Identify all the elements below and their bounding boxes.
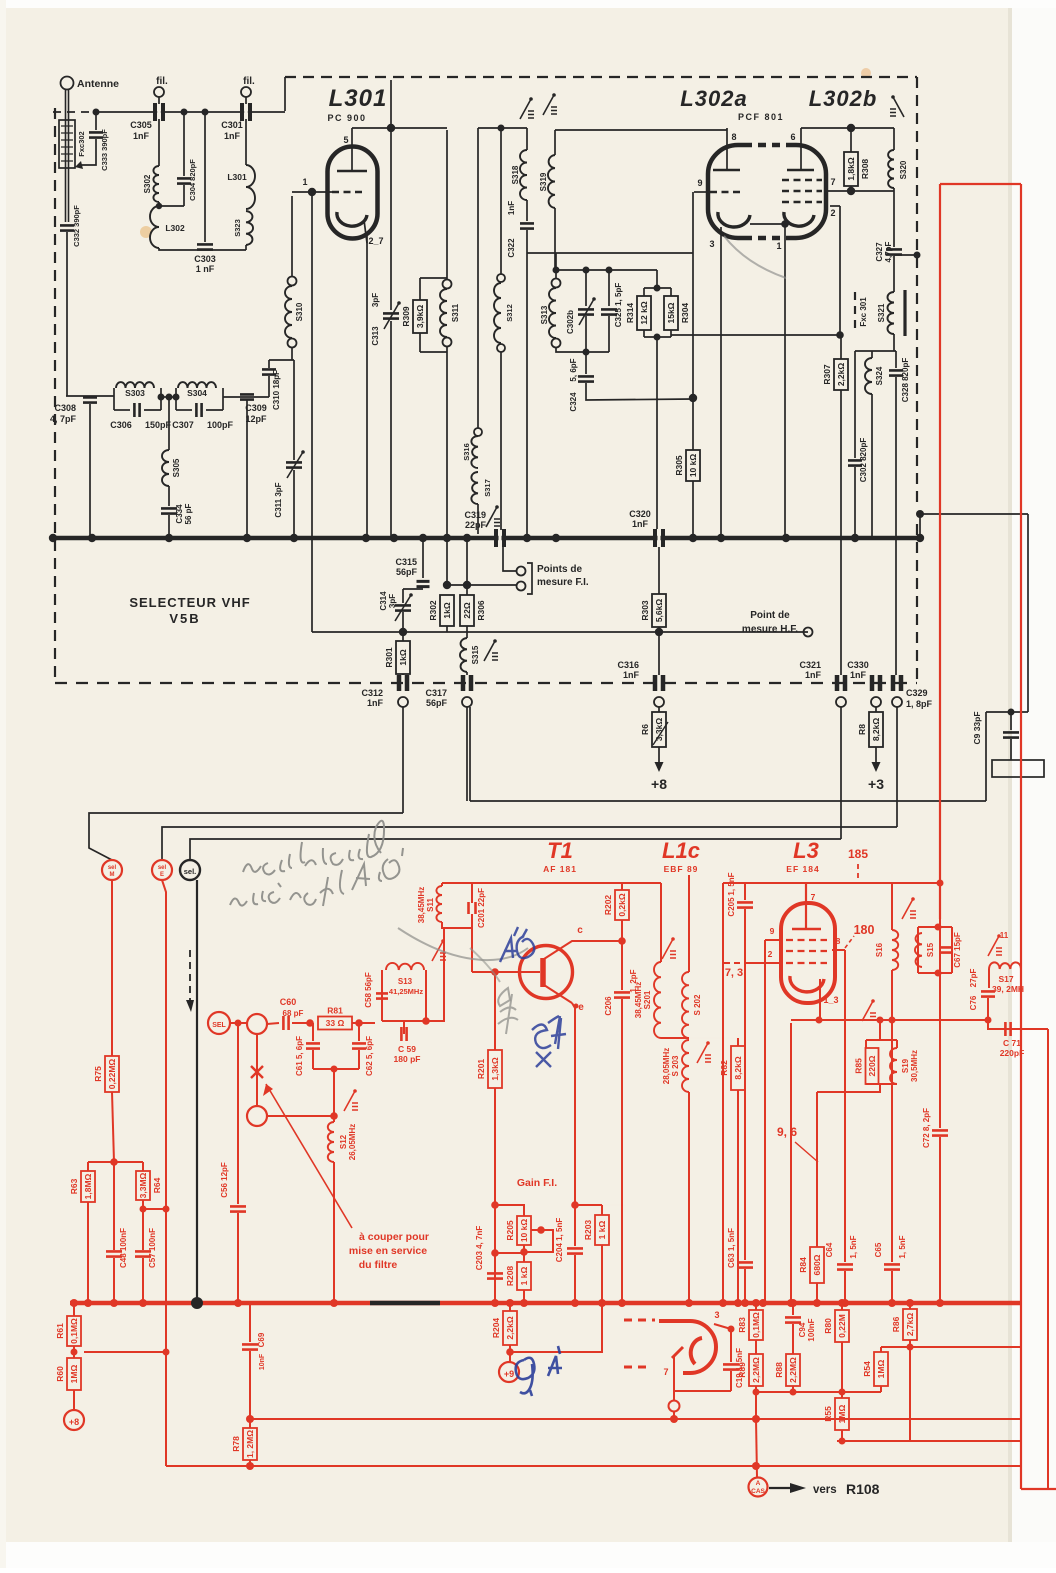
capacitor C334 56pF [168,486,170,506]
svg-text:C206: C206 [604,996,613,1016]
svg-text:S313: S313 [540,305,549,324]
svg-text:56pF: 56pF [396,567,418,577]
svg-text:1nF: 1nF [367,698,384,708]
svg-text:C204 1, 5nF: C204 1, 5nF [555,1218,564,1263]
capacitor C62 5.6pF [358,1023,360,1041]
svg-text:L302: L302 [165,223,185,233]
capacitor C320 1nF inline [655,529,663,547]
terminal +8 red [64,1410,84,1430]
svg-text:100nF: 100nF [807,1318,816,1341]
wire row 1441 [837,1440,1021,1442]
svg-text:1 kΩ: 1 kΩ [597,1221,607,1240]
grid circle [669,1401,680,1412]
point de mesure HF [804,628,813,637]
svg-text:R54: R54 [862,1361,872,1377]
inductor S305 [168,397,170,450]
resistor R64 3.3M [136,1171,150,1200]
svg-text:1_3: 1_3 [823,995,838,1005]
terminal CAS [749,1478,768,1497]
inductor S203 28.05MHz [682,1040,689,1092]
svg-text:L1c: L1c [662,838,700,863]
svg-text:3pF: 3pF [371,293,380,307]
resistor R8 8.2k to +3 [872,675,880,691]
svg-text:C 59: C 59 [398,1044,416,1054]
svg-text:S15: S15 [926,942,935,957]
svg-text:1, 8pF: 1, 8pF [906,699,933,709]
svg-text:C57 100nF: C57 100nF [148,1228,157,1268]
svg-text:C310 18pF: C310 18pF [272,370,281,410]
capacitor C322 1nF [520,223,534,228]
svg-text:7, 3: 7, 3 [725,967,743,979]
capacitor C206 1.2pF [621,941,623,990]
tube L3 pin2 dashes [724,962,744,964]
svg-text:du filtre: du filtre [359,1259,398,1271]
svg-text:R302: R302 [428,600,438,621]
svg-text:V5B: V5B [169,611,200,626]
svg-text:R202: R202 [603,895,613,916]
svg-text:C201 22pF: C201 22pF [477,888,486,928]
resistor R63 1.8M [81,1171,95,1202]
capacitor C319 22pF inline [496,529,504,547]
inductor S324 [871,351,873,358]
svg-text:R75: R75 [93,1066,103,1082]
svg-text:5, 6pF: 5, 6pF [569,358,578,381]
svg-text:C321: C321 [799,660,821,670]
svg-text:0,22M: 0,22M [837,1314,847,1338]
svg-text:mise en service: mise en service [349,1245,427,1257]
inductor S321 with core [887,292,894,334]
svg-text:vers: vers [813,1484,837,1496]
wire C203 node to wiper node [495,1252,524,1254]
bus junction dots [49,534,57,542]
resistor box right edge [992,760,1044,777]
svg-text:41,25MHz: 41,25MHz [389,987,423,996]
switch contact circle 2 [247,1106,267,1126]
svg-text:C327: C327 [875,242,884,262]
svg-text:S17: S17 [998,974,1013,984]
wire S310 to C310/C311 [269,359,294,361]
svg-text:S323: S323 [233,219,242,237]
svg-text:39, 2MH: 39, 2MH [992,984,1024,994]
svg-text:C317: C317 [425,688,447,698]
red frame vertical 1021 [1020,184,1022,1489]
tube L3 EF184 [781,903,835,1003]
svg-text:R80: R80 [823,1318,833,1334]
wire antenna row [66,395,114,397]
svg-text:R301: R301 [384,647,394,668]
terminal +9 [509,1352,511,1362]
wire tank to S11 bottom [422,1017,430,1025]
svg-text:R78: R78 [231,1436,241,1452]
svg-text:C63 1, 5nF: C63 1, 5nF [727,1228,736,1268]
svg-text:c: c [577,925,583,936]
svg-text:S 202: S 202 [693,994,702,1015]
svg-text:R63: R63 [69,1178,79,1194]
svg-text:C56 12pF: C56 12pF [220,1162,229,1198]
wire cathode link [750,223,783,225]
svg-text:27pF: 27pF [969,969,978,988]
svg-text:26,05MHz: 26,05MHz [348,1124,357,1160]
svg-text:7: 7 [663,1367,668,1377]
svg-text:C325 1, 5pF: C325 1, 5pF [614,283,623,328]
svg-text:S12: S12 [339,1134,348,1149]
switch SEL [208,1012,230,1034]
red frame vertical 940 [939,184,941,919]
wire long row 632 [312,631,808,633]
svg-text:+3: +3 [868,776,884,792]
capacitor C321 1nF border [837,675,845,691]
svg-text:C307: C307 [172,420,194,430]
wire cathode down [791,1019,988,1021]
svg-text:1kΩ: 1kΩ [398,649,408,665]
wire L302 bottom [159,248,246,250]
svg-text:C9 33pF: C9 33pF [972,711,982,744]
wire row 1347 [881,1346,1021,1348]
resistor R88 2.2M [786,1354,800,1386]
fil. terminal 1 [154,87,164,97]
svg-text:C304 820pF: C304 820pF [188,159,197,201]
capacitor C72 8.2pF [939,1020,941,1128]
svg-text:C58 56pF: C58 56pF [364,972,373,1008]
capacitor C325 1.5pF [608,270,610,306]
resistor R84 680 [816,1092,818,1247]
resistor R307 2.2k [834,359,848,390]
svg-text:C94: C94 [798,1322,807,1337]
capacitor C301 1nF inline [242,103,250,121]
wire pin6 node [801,127,894,129]
svg-text:S324: S324 [875,366,884,385]
svg-text:9: 9 [770,926,775,936]
inductor S17 39.2MHz [989,962,1021,969]
svg-text:S311: S311 [451,303,460,322]
capacitor C305 1nF inline [155,103,163,121]
tube L302 pentode grids [782,179,822,182]
svg-text:M: M [110,872,115,878]
svg-text:1nF: 1nF [623,670,640,680]
tube L301 grid pin 1 [332,191,362,194]
svg-text:SELECTEUR VHF: SELECTEUR VHF [129,595,250,610]
svg-text:C330: C330 [847,660,869,670]
svg-text:3: 3 [709,239,714,249]
capacitor C9 33pF [986,711,1028,713]
filter Fxc302 [59,120,75,168]
svg-text:+9: +9 [504,1369,514,1379]
svg-text:4, 7pF: 4, 7pF [50,414,77,424]
main ground bus [53,536,920,541]
svg-text:8: 8 [731,132,736,142]
resistor R204 2.2k [509,1303,511,1311]
svg-text:8,2kΩ: 8,2kΩ [871,718,881,742]
svg-text:C62 5, 6pF: C62 5, 6pF [365,1036,374,1076]
tube L3 pin8 [832,949,845,951]
svg-text:28,05MHz: 28,05MHz [662,1048,671,1084]
svg-text:CAS: CAS [751,1488,765,1495]
capacitor C64 1.5nF [844,950,846,1262]
transistor T1 emitter [544,985,572,1003]
svg-text:1 nF: 1 nF [196,264,215,274]
wire border corner [284,77,286,111]
resistor R55 1M [835,1398,849,1430]
svg-text:1MΩ: 1MΩ [876,1360,886,1379]
wire C9 riser [985,712,987,801]
svg-text:22Ω: 22Ω [462,602,472,618]
svg-text:1, 2MΩ: 1, 2MΩ [245,1430,255,1458]
resistor R314 12k [656,270,658,288]
svg-text:PCF 801: PCF 801 [738,112,784,122]
svg-text:C311 3pF: C311 3pF [274,482,283,517]
resistor R78 1.2M [243,1428,257,1460]
resistor R60 1M [73,1346,75,1358]
svg-text:R204: R204 [491,1318,501,1339]
svg-text:C303: C303 [194,254,216,264]
wire cathode L301 to bus [366,235,368,538]
resistor R202 0.2k [615,890,629,920]
svg-text:1nF: 1nF [224,131,241,141]
svg-text:1: 1 [302,177,307,187]
svg-text:S310: S310 [295,302,304,321]
wire anode to node [352,127,447,129]
capacitor C204 1.5nF [574,1205,576,1246]
svg-text:AF 181: AF 181 [543,864,577,874]
tube diode pin3 [714,1324,731,1329]
wire R204 node [510,1303,602,1352]
svg-text:S13: S13 [398,977,413,986]
svg-text:S302: S302 [143,174,152,193]
svg-text:2: 2 [830,208,835,218]
wire sel black down [196,880,198,1300]
wire second top node [478,127,527,129]
capacitor C310 18pF [268,360,270,368]
svg-text:1nF: 1nF [805,670,822,680]
svg-text:8,2kΩ: 8,2kΩ [733,1056,743,1080]
svg-text:2,2kΩ: 2,2kΩ [505,1316,515,1340]
svg-text:1 kΩ: 1 kΩ [519,1267,529,1286]
red frame top [940,183,1021,185]
capacitor C59 180pF [403,1021,405,1034]
svg-text:2_7: 2_7 [368,236,383,246]
svg-text:R303: R303 [640,600,650,621]
resistor R301 1k [402,632,404,641]
wire emitter down [572,1003,575,1205]
svg-text:2: 2 [768,949,773,959]
arrow vers R108 [769,1487,790,1489]
svg-text:10 kΩ: 10 kΩ [519,1219,529,1243]
tube EBF89 diode section [624,1319,655,1322]
svg-text:2,2kΩ: 2,2kΩ [836,363,846,387]
svg-text:S319: S319 [539,172,548,191]
inductor S320 [893,128,895,150]
svg-text:S 203: S 203 [671,1055,680,1076]
svg-text:11: 11 [1000,931,1009,940]
tank S15/C67 15pF [918,926,952,928]
node between tanks [161,396,176,398]
svg-text:180: 180 [854,923,875,937]
inductor S319 [554,130,556,155]
svg-text:1MΩ: 1MΩ [837,1405,847,1424]
capacitor C19 1.5nF [730,1329,732,1362]
svg-text:C60: C60 [280,997,297,1007]
wire sel M down [111,880,113,1056]
test point circle C312 [398,697,408,707]
capacitor C304 820pF [181,109,188,116]
svg-text:2,2MΩ: 2,2MΩ [788,1357,798,1383]
svg-text:SEL: SEL [212,1022,226,1029]
svg-text:C320: C320 [629,509,651,519]
svg-text:R203: R203 [583,1220,593,1241]
svg-text:C329: C329 [906,688,928,698]
arrow note to cross [266,1084,352,1228]
node R301 [399,628,407,636]
capacitor C332 390pF [60,225,74,230]
capacitor C316 1nF border [658,632,660,675]
svg-text:e: e [578,1002,584,1013]
terminal sel (black) [180,860,200,880]
svg-text:1, 5nF: 1, 5nF [898,1235,907,1258]
svg-text:1,3kΩ: 1,3kΩ [490,1057,500,1081]
capacitor C314 3pF trimmer [395,605,411,610]
red main bus [70,1301,1021,1306]
resistor R303 5.6k [658,547,660,594]
trimmer 11 mark [988,936,999,956]
capacitor C329 1.8pF border [893,675,901,691]
svg-text:1MΩ: 1MΩ [69,1365,79,1384]
svg-text:PC 900: PC 900 [327,113,366,123]
svg-text:L301: L301 [329,85,388,112]
svg-text:L302b: L302b [809,86,878,111]
wire right verticals [1047,1029,1049,1489]
capacitor C205 1.5nF [744,883,746,900]
svg-text:100pF: 100pF [207,420,234,430]
svg-text:C67 15pF: C67 15pF [953,932,962,968]
transistor T1 AF181 [520,946,573,999]
svg-text:220Ω: 220Ω [867,1055,877,1076]
svg-text:S305: S305 [172,458,181,477]
resistor R309 3.9k [419,278,421,300]
inductor L302 coil [150,206,159,248]
svg-text:Gain F.I.: Gain F.I. [517,1177,557,1189]
tube L302 triode grid [710,191,742,194]
svg-text:7: 7 [830,177,835,187]
svg-text:1kΩ: 1kΩ [442,602,452,618]
capacitor C71 220pF [988,1020,1048,1029]
capacitor C302 820pF [854,351,856,458]
svg-text:30,5MHz: 30,5MHz [910,1050,919,1082]
inductor S310 with test points [291,196,293,276]
svg-text:R60: R60 [55,1366,65,1382]
inductor S16 [891,883,893,930]
inductor S202 [688,875,690,972]
transistor T1 collector [544,941,622,959]
capacitor C309 12pF [223,396,269,398]
svg-text:C69: C69 [257,1332,266,1347]
resistor R203 1k [575,1205,625,1212]
wire 723 riser [722,883,724,1303]
black dot on bus [191,1297,203,1309]
inductor S316/S317 column [477,128,479,428]
capacitor C61 5.6pF [312,1023,314,1041]
trimmer pin6 top [893,97,904,117]
trimmer S315 [484,641,495,661]
svg-text:C301: C301 [221,120,243,130]
capacitor C315 56pF [422,538,424,578]
svg-text:S315: S315 [471,645,480,664]
potentiometer wiper [537,1226,545,1234]
svg-text:3,3MΩ: 3,3MΩ [138,1172,148,1198]
svg-text:3pF: 3pF [388,594,397,608]
svg-text:L3: L3 [793,838,819,863]
capacitor C333 390pF [93,109,100,116]
svg-text:fil.: fil. [156,76,168,87]
inductor S11 38.45MHz [441,883,443,886]
svg-text:R304: R304 [680,303,690,324]
capacitor C48 100nF [113,1162,115,1250]
capacitor C69 10nF [249,1303,251,1342]
capacitor C63 1.5nF [737,1262,753,1267]
svg-text:S317: S317 [483,479,492,497]
capacitor C57 100nF [135,1251,151,1256]
tank S304/C307 [175,388,177,410]
svg-text:sel: sel [158,865,167,871]
wire pin8 to S319 [555,129,727,131]
svg-text:0,22MΩ: 0,22MΩ [107,1059,117,1090]
svg-text:C312: C312 [361,688,383,698]
inductor S315 chain [463,581,471,589]
svg-text:C203 4, 7nF: C203 4, 7nF [475,1226,484,1271]
svg-text:mesure F.I.: mesure F.I. [537,577,589,588]
svg-text:150pF: 150pF [145,420,172,430]
trimmer S13 [432,941,443,961]
svg-text:C302 820pF: C302 820pF [859,438,868,483]
capacitor C311 3pF trimmer [293,360,295,460]
wire C315 bottom [403,588,423,590]
wire row 1419 [250,1418,1021,1420]
capacitor C201 22pF [471,883,473,903]
resistor R81 33ohm [318,1017,352,1030]
svg-text:Fxc 301: Fxc 301 [859,297,868,327]
tank bridge [855,350,896,352]
svg-text:C332 390pF: C332 390pF [72,205,81,247]
antenna terminal [61,77,74,90]
svg-text:L301: L301 [227,172,247,182]
inductor S302 [158,119,160,166]
tube L301 anode [337,170,367,173]
svg-text:R89: R89 [737,1362,747,1378]
wire C61/C62 join [313,1068,359,1070]
svg-text:5: 5 [343,135,348,145]
capacitor C56 12pF [237,1023,239,1204]
capacitor C308 4.7pF [89,396,91,398]
svg-text:S304: S304 [187,388,207,398]
svg-text:S318: S318 [511,165,520,184]
tube L302 PCF801 [708,145,826,238]
svg-text:2,7kΩ: 2,7kΩ [905,1313,915,1337]
resistor R302 1k [443,581,451,589]
test point circle C317 [462,697,472,707]
cross mark [251,1066,263,1078]
svg-text:680Ω: 680Ω [812,1254,822,1275]
resistor R83 0.1M [755,1303,757,1310]
svg-text:0,1MΩ: 0,1MΩ [69,1318,79,1344]
wire contact to S12 [267,1115,334,1117]
svg-text:+8: +8 [69,1417,79,1427]
svg-text:185: 185 [848,847,868,861]
svg-text:A: A [756,1480,761,1487]
wire S11/C201 bottom [441,927,472,929]
svg-text:Antenne: Antenne [77,78,119,90]
inductor L301 coil [245,119,247,165]
svg-text:C302b: C302b [566,310,575,334]
svg-text:S16: S16 [875,942,884,957]
